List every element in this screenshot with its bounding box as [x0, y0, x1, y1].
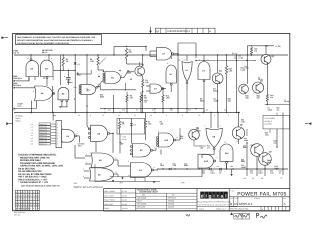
svg-text:6: 6	[83, 175, 84, 178]
svg-text:PIN 7 ON EACH IC = GND: PIN 7 ON EACH IC = GND	[18, 176, 46, 179]
svg-text:E8 IS DEC7400: E8 IS DEC7400	[18, 167, 35, 170]
svg-text:2N3009: 2N3009	[168, 203, 174, 206]
svg-text:CODE: CODE	[234, 198, 238, 200]
svg-text:F.P.: F.P.	[182, 182, 186, 185]
svg-text:4: 4	[86, 161, 87, 164]
svg-text:5: 5	[228, 114, 229, 117]
svg-text:8: 8	[121, 75, 122, 78]
svg-text:l: l	[225, 193, 226, 198]
svg-text:MPS6534: MPS6534	[168, 197, 176, 200]
svg-text:E2, E3, E5, E7 ARE DEC74H00: E2, E3, E5, E7 ARE DEC74H00	[18, 173, 52, 176]
svg-text:* ON EACH MULTI IC = +5V: * ON EACH MULTI IC = +5V	[18, 181, 48, 184]
svg-text:i: i	[213, 193, 214, 198]
svg-text:CAPACITORS ARE .01 MFD; 100V;: CAPACITORS ARE .01 MFD; 100V; 20%	[20, 165, 64, 168]
svg-text:2: 2	[199, 58, 200, 61]
svg-text:L200: L200	[127, 71, 131, 74]
svg-text:470: 470	[180, 137, 183, 140]
svg-text:OK (D) H: OK (D) H	[13, 84, 22, 87]
svg-text:100: 100	[145, 81, 148, 84]
svg-text:E9: E9	[206, 109, 208, 112]
svg-text:10: 10	[178, 59, 180, 62]
svg-text:13: 13	[115, 171, 117, 174]
svg-text:+15: +15	[243, 177, 246, 180]
svg-text:5600: 5600	[100, 95, 104, 98]
svg-text:470: 470	[257, 96, 260, 99]
svg-text:2N4258: 2N4258	[168, 205, 174, 208]
svg-text:PARTS LIST A-PL-M705-0-0: PARTS LIST A-PL-M705-0-0	[74, 186, 104, 189]
svg-text:A1 H1: A1 H1	[122, 138, 127, 141]
svg-text:-15: -15	[280, 177, 283, 180]
svg-text:L1.5K: L1.5K	[239, 56, 244, 59]
svg-text:5600: 5600	[267, 161, 271, 164]
svg-text:D664: D664	[244, 139, 248, 142]
svg-text:470: 470	[144, 101, 147, 104]
svg-text:E13: E13	[152, 109, 155, 112]
svg-text:13: 13	[102, 114, 104, 117]
svg-text:DEC4258: DEC4258	[137, 205, 145, 208]
svg-text:.01: .01	[234, 57, 236, 60]
svg-text:(A) +5: (A) +5	[14, 52, 19, 55]
svg-text:+10: +10	[216, 165, 219, 168]
svg-text:D664: D664	[243, 146, 247, 149]
svg-text:LOW (E) L: LOW (E) L	[13, 77, 23, 80]
svg-text:.01: .01	[219, 171, 221, 174]
svg-text:2: 2	[220, 125, 221, 128]
svg-text:SIZE: SIZE	[230, 198, 233, 200]
svg-text:6: 6	[217, 156, 218, 159]
svg-text:11: 11	[134, 114, 136, 117]
svg-text:8: 8	[53, 89, 54, 92]
svg-text:5: 5	[40, 72, 41, 75]
svg-text:470: 470	[130, 96, 133, 99]
svg-text:5: 5	[158, 130, 159, 133]
svg-text:E14: E14	[170, 109, 173, 112]
svg-text:IN REV C: IN REV C	[265, 120, 273, 123]
svg-text:470: 470	[122, 123, 125, 126]
svg-text:CIRCUITS ARE PROPRIETARY IN NA: CIRCUITS ARE PROPRIETARY IN NATURE AND S…	[17, 39, 94, 42]
svg-text:NUMBER: NUMBER	[254, 198, 260, 200]
svg-text:(D) +5: (D) +5	[232, 52, 237, 55]
svg-text:11: 11	[236, 140, 238, 143]
svg-text:470: 470	[144, 96, 147, 99]
svg-text:TRANSISTORS ARE DEC6534B: TRANSISTORS ARE DEC6534B	[20, 162, 55, 165]
svg-text:D664: D664	[211, 171, 215, 174]
svg-text:12: 12	[176, 136, 178, 139]
svg-text:E9: E9	[136, 109, 138, 112]
svg-text:E15: E15	[108, 109, 111, 112]
svg-text:DEC3009A: DEC3009A	[137, 203, 147, 206]
svg-text:B2: B2	[261, 177, 263, 180]
svg-text:UNLESS OTHERWISE INDICATED:: UNLESS OTHERWISE INDICATED:	[18, 154, 56, 157]
svg-text:D1: D1	[78, 63, 80, 66]
svg-text:C2: C2	[252, 177, 254, 180]
svg-text:9: 9	[77, 132, 78, 135]
svg-text:E15: E15	[188, 109, 191, 112]
svg-text:RST L: RST L	[78, 144, 83, 147]
svg-text:3: 3	[86, 153, 87, 156]
svg-text:100: 100	[228, 99, 231, 102]
svg-text:F.P.: F.P.	[120, 182, 124, 185]
svg-text:9: 9	[90, 114, 91, 117]
svg-text:.01: .01	[279, 171, 281, 174]
svg-text:9: 9	[33, 90, 34, 93]
svg-text:L200: L200	[197, 129, 201, 132]
svg-text:12: 12	[118, 114, 120, 117]
svg-text:DIODES ARE D664: DIODES ARE D664	[20, 159, 41, 162]
svg-text:2: 2	[51, 57, 52, 60]
svg-text:D664: D664	[137, 200, 141, 203]
svg-text:12: 12	[184, 58, 186, 61]
svg-text:13: 13	[198, 114, 200, 117]
svg-text:100: 100	[274, 141, 277, 144]
svg-text:100PF: 100PF	[241, 166, 246, 169]
svg-text:A: A	[284, 202, 286, 206]
svg-text:DEC6534B: DEC6534B	[137, 197, 147, 200]
svg-text:10: 10	[150, 114, 152, 117]
svg-text:CS: CS	[234, 202, 238, 206]
svg-text:4: 4	[214, 114, 215, 117]
svg-text:TITLE: TITLE	[231, 190, 235, 192]
svg-text:D8: D8	[134, 123, 136, 126]
svg-text:8: 8	[154, 166, 155, 169]
svg-text:680: 680	[129, 50, 132, 53]
svg-text:1: 1	[62, 127, 63, 130]
svg-text:RESISTORS ARE 1/4W; 5%: RESISTORS ARE 1/4W; 5%	[20, 156, 51, 159]
svg-text:i: i	[205, 193, 206, 198]
svg-text:5: 5	[83, 168, 84, 171]
svg-text:M705-0-1: M705-0-1	[239, 202, 253, 206]
svg-text:.1MF: .1MF	[160, 164, 164, 167]
svg-text:13: 13	[207, 58, 209, 61]
svg-text:PIN 14 ON EACH IC = +5V: PIN 14 ON EACH IC = +5V	[18, 178, 47, 181]
svg-text:3: 3	[98, 83, 99, 86]
svg-text:E13: E13	[224, 109, 227, 112]
svg-text:8: 8	[182, 114, 183, 117]
svg-text:MA? ON EACH MODULE IS USED FOR: MA? ON EACH MODULE IS USED FOR +5V	[21, 185, 60, 188]
svg-text:M: M	[156, 29, 159, 33]
svg-text:d: d	[201, 193, 204, 198]
svg-text:& LATER: & LATER	[265, 123, 273, 126]
svg-text:9: 9	[128, 160, 129, 163]
svg-text:6: 6	[110, 130, 111, 133]
svg-text:COPYRIGHT 1969 BY DIGITAL EQUI: COPYRIGHT 1969 BY DIGITAL EQUIPMENT CORP…	[17, 42, 70, 45]
svg-text:D664: D664	[213, 89, 217, 92]
svg-text:D664: D664	[200, 99, 204, 102]
svg-text:8: 8	[62, 140, 63, 143]
svg-text:A: A	[209, 30, 211, 33]
svg-text:D-B-SCHM-M705-0-1: D-B-SCHM-M705-0-1	[168, 30, 191, 33]
svg-text:5600: 5600	[241, 160, 245, 163]
svg-text:D664: D664	[184, 164, 188, 167]
svg-text:10: 10	[224, 141, 226, 144]
svg-text:10: 10	[128, 174, 130, 177]
svg-text:1N3606: 1N3606	[168, 200, 174, 203]
svg-text:100: 100	[254, 49, 257, 52]
svg-text:E Q U I P M E N T C O R P O: E Q U I P M E N T C O R P O R A T I O N	[197, 200, 231, 203]
svg-text:180: 180	[230, 165, 233, 168]
svg-text:D664: D664	[245, 67, 249, 70]
svg-text:C17 IS USED: C17 IS USED	[265, 117, 276, 120]
svg-text:470: 470	[250, 171, 253, 174]
svg-text:a: a	[221, 193, 224, 198]
svg-text:4: 4	[154, 147, 155, 150]
svg-text:4: 4	[28, 57, 29, 60]
svg-text:.1MF: .1MF	[200, 146, 204, 149]
svg-text:9: 9	[166, 114, 167, 117]
svg-text:g: g	[209, 193, 212, 198]
svg-text:9: 9	[167, 62, 168, 65]
svg-text:+5 (M): +5 (M)	[275, 45, 281, 48]
svg-text:10: 10	[78, 114, 80, 117]
svg-text:B: B	[230, 202, 232, 206]
svg-text:3: 3	[205, 125, 206, 128]
svg-text:11: 11	[115, 157, 117, 160]
svg-text:D664: D664	[259, 171, 263, 174]
svg-text:THIS SCHEMATIC IS FURNISHED ON: THIS SCHEMATIC IS FURNISHED ONLY FOR TES…	[17, 36, 96, 39]
svg-text:100: 100	[270, 96, 273, 99]
svg-text:(B) +5: (B) +5	[42, 51, 47, 54]
svg-text:680: 680	[202, 171, 205, 174]
svg-text:.01MF: .01MF	[213, 99, 219, 102]
svg-text:470: 470	[207, 146, 210, 149]
svg-text:E10: E10	[122, 109, 125, 112]
svg-text:E1, E6 ARE DEC7410: E1, E6 ARE DEC7410	[18, 170, 42, 173]
